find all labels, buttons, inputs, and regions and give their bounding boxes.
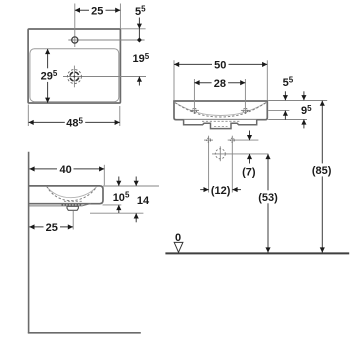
svg-text:28: 28: [214, 78, 226, 90]
svg-text:95: 95: [301, 104, 312, 117]
svg-text:14: 14: [137, 195, 150, 207]
svg-text:0: 0: [175, 232, 181, 244]
svg-text:(12): (12): [211, 185, 231, 197]
svg-text:25: 25: [91, 6, 103, 18]
svg-text:40: 40: [59, 164, 71, 176]
svg-text:55: 55: [135, 5, 146, 18]
svg-text:55: 55: [283, 76, 294, 89]
svg-text:195: 195: [133, 52, 150, 65]
svg-text:105: 105: [113, 191, 130, 204]
svg-text:(53): (53): [258, 192, 278, 204]
svg-text:25: 25: [46, 222, 58, 234]
svg-text:(85): (85): [312, 165, 332, 177]
svg-text:50: 50: [214, 60, 226, 72]
svg-text:(7): (7): [242, 167, 256, 179]
